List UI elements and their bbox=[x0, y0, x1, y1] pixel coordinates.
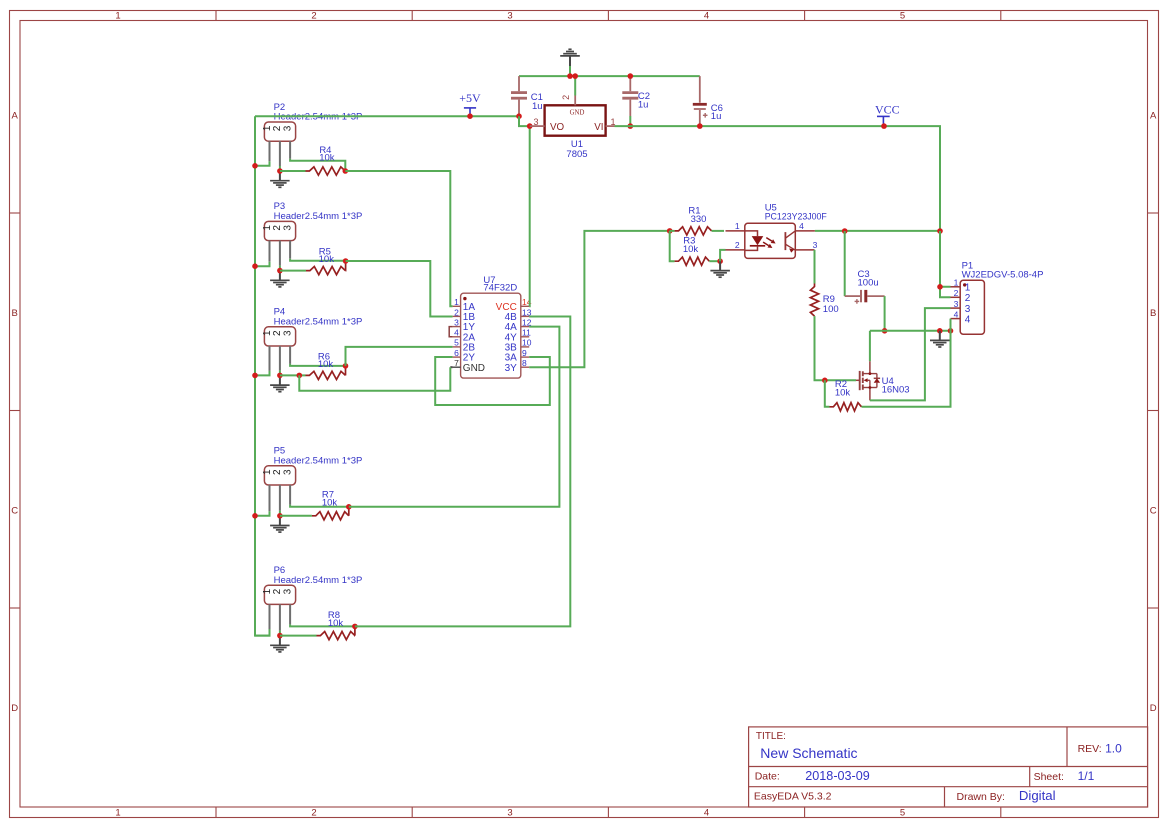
svg-text:3: 3 bbox=[454, 317, 459, 327]
junction R5 right bbox=[343, 258, 349, 264]
ground P2 bbox=[270, 171, 290, 187]
junction gate node bbox=[822, 378, 828, 384]
title block bbox=[749, 727, 1148, 807]
header P6 bbox=[262, 565, 363, 631]
resistor R9 100 bbox=[810, 284, 838, 317]
header P2 bbox=[262, 102, 363, 166]
svg-text:330: 330 bbox=[691, 214, 707, 225]
svg-text:2: 2 bbox=[454, 307, 459, 317]
resistor R3 10k bbox=[670, 231, 720, 265]
ground P3 bbox=[270, 271, 290, 287]
junction P3 pin2 bbox=[277, 268, 283, 274]
svg-text:C: C bbox=[1150, 505, 1157, 516]
svg-text:2: 2 bbox=[965, 293, 971, 304]
svg-text:4: 4 bbox=[965, 314, 971, 325]
junction VCC column bbox=[937, 228, 943, 234]
resistor R1 330 bbox=[670, 206, 724, 236]
svg-text:A: A bbox=[12, 111, 19, 122]
svg-text:REV:: REV: bbox=[1078, 743, 1102, 755]
resistor R2 10k bbox=[825, 379, 862, 411]
svg-text:Drawn By:: Drawn By: bbox=[957, 791, 1005, 803]
svg-text:74F32D: 74F32D bbox=[483, 282, 517, 293]
svg-text:2: 2 bbox=[954, 288, 959, 298]
svg-text:Header2.54mm 1*3P: Header2.54mm 1*3P bbox=[274, 575, 363, 586]
svg-text:Header2.54mm 1*3P: Header2.54mm 1*3P bbox=[274, 316, 363, 327]
svg-text:GND: GND bbox=[570, 109, 585, 116]
junction R4 right bbox=[343, 168, 349, 174]
junction P4 pin2 bbox=[277, 373, 283, 379]
svg-text:Sheet:: Sheet: bbox=[1034, 771, 1064, 783]
wire P5 pin2 to ground node bbox=[279, 511, 281, 516]
wire U7 pin7 GND bbox=[299, 367, 452, 391]
svg-text:1: 1 bbox=[115, 808, 120, 819]
svg-text:4: 4 bbox=[704, 11, 709, 22]
svg-text:5: 5 bbox=[454, 338, 459, 348]
junction R6 right bbox=[343, 363, 349, 369]
wire P6 pin3 bbox=[290, 624, 355, 626]
svg-text:WJ2EDGV-5.08-4P: WJ2EDGV-5.08-4P bbox=[962, 270, 1044, 281]
wire P4 pin1 to +5V bus bbox=[255, 371, 270, 376]
wire VI rail bbox=[615, 126, 941, 231]
svg-text:10k: 10k bbox=[319, 254, 335, 265]
svg-text:1: 1 bbox=[454, 297, 459, 307]
wire U5 pin2 bbox=[720, 250, 725, 261]
svg-text:D: D bbox=[11, 703, 18, 714]
wire P2 pin1 to +5V bus bbox=[255, 161, 270, 166]
svg-text:10k: 10k bbox=[328, 618, 344, 629]
svg-text:1u: 1u bbox=[638, 100, 649, 111]
wire U7 pin5 from R6 bbox=[346, 347, 453, 366]
svg-text:1: 1 bbox=[735, 221, 740, 231]
svg-text:+5V: +5V bbox=[459, 91, 481, 105]
wire P5 pin3 bbox=[290, 505, 349, 507]
ground P4 bbox=[270, 375, 290, 391]
junction R3 right / gnd bbox=[717, 258, 723, 264]
ground P6 bbox=[270, 636, 290, 652]
svg-text:5: 5 bbox=[900, 808, 905, 819]
wire U7 pin14 from +5V bbox=[528, 126, 531, 306]
svg-text:3: 3 bbox=[507, 808, 512, 819]
svg-text:3: 3 bbox=[282, 469, 293, 475]
wire R2 to P1 pin4 node bbox=[862, 331, 951, 407]
svg-text:1u: 1u bbox=[532, 101, 543, 112]
svg-text:4: 4 bbox=[454, 328, 459, 338]
svg-text:3: 3 bbox=[533, 117, 538, 127]
svg-text:10k: 10k bbox=[835, 387, 851, 398]
svg-text:1: 1 bbox=[954, 278, 959, 288]
capacitor C6 1u polarized bbox=[693, 76, 723, 126]
svg-text:9: 9 bbox=[522, 348, 527, 358]
svg-text:1: 1 bbox=[262, 330, 273, 336]
junction R7 right bbox=[346, 504, 352, 510]
svg-text:D: D bbox=[1150, 703, 1157, 714]
svg-text:10k: 10k bbox=[318, 359, 334, 370]
wire P3 pin2 to ground node bbox=[279, 266, 281, 271]
resistor R7 10k bbox=[280, 490, 349, 520]
svg-text:Date:: Date: bbox=[755, 770, 780, 782]
svg-text:1: 1 bbox=[262, 469, 273, 475]
svg-text:TITLE:: TITLE: bbox=[756, 731, 786, 742]
wire +5V horizontal rail bbox=[255, 115, 519, 117]
svg-text:1: 1 bbox=[262, 125, 273, 131]
wire P1 pins 1-2 from VCC bbox=[940, 231, 951, 297]
junction +5V flag bbox=[467, 113, 473, 119]
junction P5 pin2 bbox=[277, 513, 283, 519]
svg-text:3Y: 3Y bbox=[505, 363, 518, 374]
svg-text:2: 2 bbox=[311, 11, 316, 22]
svg-text:3: 3 bbox=[965, 304, 971, 315]
wire U7 pin12 from R7 bbox=[349, 327, 560, 507]
transistor U4 16N03 bbox=[856, 361, 910, 400]
svg-text:C: C bbox=[11, 505, 18, 516]
svg-text:2: 2 bbox=[311, 808, 316, 819]
svg-text:1: 1 bbox=[115, 11, 120, 22]
svg-text:3: 3 bbox=[813, 240, 818, 250]
svg-text:A: A bbox=[1150, 111, 1157, 122]
svg-text:5: 5 bbox=[900, 11, 905, 22]
junction C2 bottom bbox=[628, 123, 634, 129]
junction C3 top bbox=[842, 228, 848, 234]
svg-text:PC123Y23J00F: PC123Y23J00F bbox=[765, 212, 828, 222]
svg-text:VCC: VCC bbox=[875, 103, 900, 117]
junction bus P2 bbox=[252, 163, 258, 169]
svg-text:16N03: 16N03 bbox=[882, 385, 910, 396]
wire U7 pin1 from R4 bbox=[345, 171, 452, 306]
wire VO elbow bbox=[519, 116, 530, 126]
resistor R8 10k bbox=[280, 610, 355, 640]
svg-text:10k: 10k bbox=[319, 153, 335, 164]
wire P6 pin2 to ground node bbox=[279, 631, 281, 636]
wire +5V vertical bus bbox=[255, 116, 270, 635]
wire U7 pin6 to pin9 bbox=[435, 357, 550, 405]
wire P2 pin3 bbox=[290, 159, 345, 171]
power flag VCC bbox=[875, 103, 900, 127]
svg-text:8: 8 bbox=[522, 358, 527, 368]
svg-text:2: 2 bbox=[561, 95, 571, 100]
svg-text:7: 7 bbox=[454, 358, 459, 368]
junction U1 VO node bbox=[527, 123, 533, 129]
wire P5 pin1 to +5V bus bbox=[255, 511, 270, 516]
svg-text:VI: VI bbox=[594, 122, 603, 133]
resistor R5 10k bbox=[280, 246, 346, 274]
svg-text:1: 1 bbox=[965, 283, 971, 294]
svg-text:3: 3 bbox=[282, 125, 293, 131]
junction C6 bottom bbox=[697, 123, 703, 129]
wire R9 to U4 gate bbox=[815, 316, 857, 380]
header P3 bbox=[262, 201, 363, 265]
svg-text:10k: 10k bbox=[683, 244, 699, 255]
junction C3 bottom bbox=[882, 328, 888, 334]
quad OR gate U7 74F32D bbox=[453, 275, 532, 378]
ground P5 bbox=[270, 516, 290, 532]
wire P2 pin2 to ground node bbox=[279, 166, 281, 171]
junction P1 pin4 node bbox=[948, 328, 954, 334]
junction U1 pin2 bbox=[572, 73, 578, 79]
junction C1 bottom bbox=[516, 113, 522, 119]
svg-text:3: 3 bbox=[507, 11, 512, 22]
header P4 bbox=[262, 307, 363, 371]
junction R8 right bbox=[352, 624, 358, 630]
svg-text:VO: VO bbox=[550, 122, 565, 133]
svg-text:6: 6 bbox=[454, 348, 459, 358]
junction P2 pin2 bbox=[277, 168, 283, 174]
svg-text:100: 100 bbox=[823, 304, 839, 315]
junction C2 top bbox=[628, 73, 634, 79]
power flag +5V bbox=[459, 91, 481, 116]
wire U7 pin2 from R5 bbox=[346, 261, 453, 316]
svg-text:GND: GND bbox=[463, 363, 485, 374]
svg-text:4: 4 bbox=[954, 309, 959, 319]
junction bus P3 bbox=[252, 263, 258, 269]
svg-text:3: 3 bbox=[954, 299, 959, 309]
svg-text:Digital: Digital bbox=[1019, 788, 1056, 803]
svg-text:11: 11 bbox=[522, 328, 531, 338]
svg-text:2: 2 bbox=[735, 240, 740, 250]
junction bus P5 bbox=[252, 513, 258, 519]
wire U7 pin3 to pin4 loop bbox=[449, 327, 452, 337]
ground top (flipped) bbox=[560, 49, 580, 76]
wire U7 pin13 from R8 bbox=[355, 316, 570, 626]
svg-text:1: 1 bbox=[262, 588, 273, 594]
svg-text:1.0: 1.0 bbox=[1105, 741, 1122, 755]
junction VCC flag bbox=[881, 123, 887, 129]
svg-text:B: B bbox=[1150, 308, 1156, 319]
svg-text:4: 4 bbox=[704, 808, 709, 819]
svg-text:7805: 7805 bbox=[566, 149, 587, 160]
ground R3 bbox=[710, 261, 730, 277]
ground mid (P1) bbox=[930, 331, 950, 347]
svg-text:3: 3 bbox=[282, 330, 293, 336]
svg-text:B: B bbox=[12, 308, 18, 319]
regulator U1 7805 bbox=[530, 95, 616, 160]
wire U4 source to P1 pin3 bbox=[870, 308, 951, 400]
junction R1/R3 input node bbox=[667, 228, 673, 234]
connector P1 WJ2EDGV-5.08-4P bbox=[951, 261, 1044, 335]
svg-text:EasyEDA V5.3.2: EasyEDA V5.3.2 bbox=[754, 791, 832, 803]
svg-text:2018-03-09: 2018-03-09 bbox=[805, 769, 869, 783]
svg-text:3: 3 bbox=[282, 225, 293, 231]
resistor R4 10k bbox=[280, 145, 345, 175]
svg-text:1/1: 1/1 bbox=[1078, 769, 1095, 783]
optocoupler U5 PC123Y23J00F bbox=[726, 203, 828, 259]
svg-text:New Schematic: New Schematic bbox=[760, 745, 857, 761]
svg-text:Header2.54mm 1*3P: Header2.54mm 1*3P bbox=[274, 455, 363, 466]
wire drain rail bbox=[870, 330, 951, 332]
wire P6 pin1 to +5V bus bbox=[255, 631, 270, 636]
wire P1 pin4 down bbox=[950, 319, 952, 331]
wire top ground rail bbox=[519, 75, 700, 77]
svg-text:10: 10 bbox=[522, 338, 532, 348]
svg-text:10k: 10k bbox=[322, 497, 338, 508]
wire P4 pin3 bbox=[290, 364, 345, 366]
wire U4 drain bbox=[869, 331, 871, 362]
svg-text:4: 4 bbox=[799, 221, 804, 231]
junction P6 pin2 bbox=[277, 633, 283, 639]
wire P3 pin1 to +5V bus bbox=[255, 262, 270, 267]
svg-text:3: 3 bbox=[282, 588, 293, 594]
wire P4 pin2 to ground node bbox=[279, 370, 281, 375]
junction top gnd bbox=[567, 73, 573, 79]
header P5 bbox=[262, 446, 363, 512]
wire VCC node from U5 pin4 bbox=[815, 230, 940, 232]
resistor R6 10k bbox=[280, 351, 346, 379]
junction bus P4 bbox=[252, 373, 258, 379]
svg-text:1u: 1u bbox=[711, 111, 722, 122]
wire U1 pin2 up bbox=[574, 76, 576, 95]
wire U7 pin8 to R1/R3 node bbox=[529, 231, 670, 367]
svg-text:Header2.54mm 1*3P: Header2.54mm 1*3P bbox=[274, 211, 363, 222]
wire P3 pin3 bbox=[290, 259, 346, 261]
capacitor C3 100u bbox=[845, 231, 885, 331]
svg-text:1: 1 bbox=[262, 225, 273, 231]
junction P1 pin1 bbox=[937, 284, 943, 290]
capacitor C2 1u bbox=[622, 76, 650, 126]
svg-text:100u: 100u bbox=[858, 278, 879, 289]
capacitor C1 1u bbox=[511, 76, 543, 116]
junction gnd mid bbox=[937, 328, 943, 334]
wire U5 pin3 to R9 bbox=[814, 250, 816, 284]
junction R6 left node bbox=[297, 373, 303, 379]
